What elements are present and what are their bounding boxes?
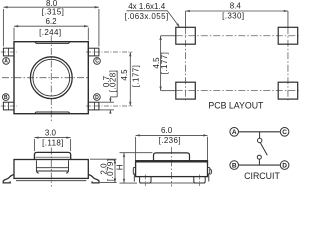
terminal label D	[94, 94, 101, 101]
seating line	[140, 182, 206, 184]
switch lever	[260, 143, 267, 155]
foot right	[194, 177, 205, 183]
base plate line	[16, 180, 86, 182]
switch contact lower	[257, 155, 261, 159]
gull-wing lead right	[88, 175, 99, 183]
svg-text:[.244]: [.244]	[39, 28, 61, 37]
pad top-left	[176, 27, 196, 44]
lead top-left	[3, 48, 14, 56]
cover tab line top	[35, 42, 70, 43]
stem cap	[34, 152, 70, 159]
svg-text:[.028]: [.028]	[109, 70, 118, 92]
stem cap inner line	[35, 156, 70, 158]
svg-text:D: D	[95, 95, 99, 101]
pad column centerline left	[185, 11, 187, 27]
wire bottom B-D	[239, 164, 281, 166]
svg-text:[.118]: [.118]	[42, 138, 64, 147]
svg-text:PCB LAYOUT: PCB LAYOUT	[208, 100, 264, 110]
lead bottom-right	[88, 102, 99, 110]
terminal B	[230, 161, 239, 170]
terminal A	[230, 128, 239, 137]
centerline vertical (side view)	[171, 147, 173, 187]
svg-text:6.0: 6.0	[161, 126, 173, 135]
skirt notch right	[66, 171, 68, 173]
skirt notch left	[37, 171, 39, 173]
dimension 8.4 [.330]	[186, 10, 288, 12]
terminal label A	[3, 58, 10, 65]
lead centerline top-right / extension for 4.5 dim	[86, 51, 132, 53]
svg-text:[.177]: [.177]	[160, 52, 169, 74]
stem bump (side view)	[154, 153, 190, 161]
terminal D	[280, 161, 289, 170]
svg-text:A: A	[232, 129, 237, 136]
lead top-right	[88, 48, 99, 56]
pad row centerline top	[161, 35, 176, 37]
body top thick edge	[136, 161, 208, 163]
switch stub bottom	[258, 159, 260, 165]
pad top-right	[278, 27, 298, 44]
cover tab line bottom	[35, 112, 70, 113]
svg-text:[.063x.055]: [.063x.055]	[125, 12, 169, 21]
side lead tab left	[133, 168, 135, 174]
pad column centerline right	[287, 11, 289, 27]
terminal label B	[2, 94, 9, 101]
centerline vertical (front view)	[50, 148, 52, 187]
svg-text:C: C	[282, 129, 287, 136]
svg-text:4x 1.6x1.4: 4x 1.6x1.4	[128, 2, 165, 11]
button inner circle	[33, 59, 70, 96]
gull-wing lead left	[3, 175, 14, 183]
dimension 4.5 [.177] (pcb)	[160, 36, 162, 91]
svg-text:[.079]: [.079]	[106, 159, 115, 181]
svg-text:D: D	[282, 163, 287, 170]
switch contact upper	[258, 138, 262, 142]
svg-text:8.4: 8.4	[230, 1, 242, 10]
svg-text:B: B	[232, 163, 237, 170]
pad row centerline bottom	[161, 90, 176, 92]
switch stub top	[259, 132, 261, 139]
svg-text:[.315]: [.315]	[42, 8, 64, 17]
dimension 4.5 [.177] (top view)	[129, 52, 131, 106]
dimension H	[120, 153, 153, 183]
dimension 3.0 [.118]	[34, 138, 70, 152]
pad bottom-right	[278, 82, 298, 99]
svg-text:CIRCUIT: CIRCUIT	[244, 171, 280, 181]
stem inner skirt	[36, 160, 68, 171]
terminal label C	[94, 58, 101, 65]
svg-text:H: H	[115, 164, 124, 170]
svg-text:[.177]: [.177]	[132, 65, 141, 87]
lead centerline bottom-left	[1, 105, 17, 107]
lead bottom-left	[3, 102, 14, 110]
svg-text:3.0: 3.0	[45, 129, 57, 138]
dimension 2.0 [.079]	[90, 159, 117, 182]
svg-text:4.5: 4.5	[120, 69, 129, 81]
foot centerline right	[199, 175, 201, 187]
foot centerline left	[144, 175, 146, 187]
switch body outline (top view)	[14, 42, 88, 114]
centerline horizontal (top view)	[2, 77, 89, 79]
body (front view)	[14, 160, 88, 179]
lead centerline top-left	[1, 51, 17, 53]
foot left	[140, 177, 151, 183]
dimension 6.2 [.244]	[14, 26, 88, 40]
terminal C	[280, 128, 289, 137]
pad bottom-left	[176, 82, 196, 99]
centerline vertical (top view)	[50, 36, 52, 122]
button outer circle	[30, 57, 72, 99]
svg-text:6.2: 6.2	[45, 17, 57, 26]
side lead tab right	[208, 168, 210, 174]
dimension 0.7 [.028]	[100, 71, 118, 114]
svg-text:B: B	[4, 95, 8, 101]
dimension 6.0 [.236]	[136, 135, 208, 160]
svg-text:[.236]: [.236]	[159, 136, 181, 145]
body (side view)	[136, 161, 208, 177]
svg-text:C: C	[95, 59, 99, 65]
lead centerline bottom-right / extension for 4.5 dim	[86, 105, 132, 107]
dimension 8.0 [.315]	[3, 7, 99, 46]
wire top A-C	[239, 131, 281, 133]
svg-text:[.330]: [.330]	[222, 11, 244, 20]
svg-text:A: A	[4, 59, 8, 65]
